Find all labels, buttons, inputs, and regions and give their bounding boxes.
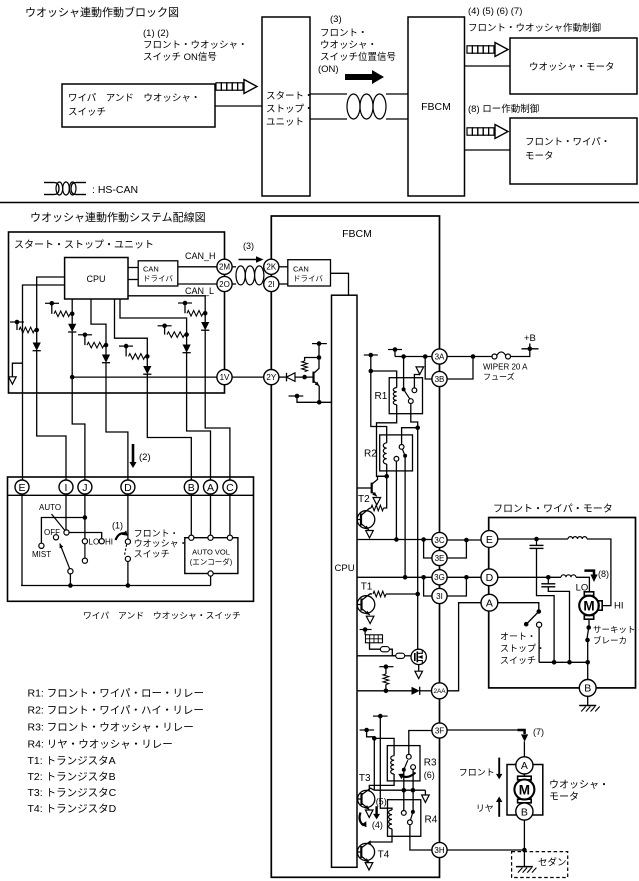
relay R2 top contact (399, 445, 404, 450)
power stub (2Y emitter) (289, 395, 304, 397)
transistor T2 circle (357, 511, 375, 529)
node 3C (432, 532, 447, 547)
transistor T2 first stage base wire (357, 487, 372, 489)
resistor N5 (167, 332, 185, 338)
relay R1 armature (404, 389, 410, 399)
relay R4 armature (411, 812, 413, 820)
wire CPU right to N6 junction (128, 296, 205, 322)
svg-text:(3): (3) (243, 241, 254, 251)
wire N1 stub to resistor (16, 322, 18, 330)
relay R3 armature (404, 760, 408, 770)
washer switch dashed lever (124, 545, 126, 556)
relay R3 second contact (411, 765, 416, 770)
svg-text:フロント: フロント (459, 768, 495, 778)
resistor N4 (129, 354, 146, 360)
node 2AA (432, 683, 448, 699)
power stub (oscillator) (360, 629, 372, 631)
armature choke coil (E line) (568, 537, 587, 539)
transistor (2Y stage) bar (312, 372, 314, 383)
wire arrow to washer pin A (523, 742, 525, 758)
svg-text:ユニット: ユニット (266, 117, 304, 128)
diode N2 (68, 324, 76, 332)
transistor T1 base wire (357, 604, 362, 606)
node B (washer motor) (516, 803, 533, 820)
wire 3E inside loop (424, 540, 432, 559)
wire AUTO VOL to bottom rail (210, 576, 212, 585)
AUTO VOL encoder box (185, 538, 238, 574)
wire CPU left to N1 vertical (37, 277, 65, 343)
wire 3H to ground node (447, 849, 524, 851)
svg-text:T1: トランジスタA: T1: トランジスタA (28, 755, 116, 767)
svg-text:フロント・ウオッシャ作動制御: フロント・ウオッシャ作動制御 (468, 22, 601, 34)
power stub N2 (45, 302, 59, 304)
transistor (2Y stage) emitter (314, 381, 320, 386)
contact AUTO (64, 530, 69, 535)
junction 3A rail / R1 pivot (401, 354, 406, 359)
washer motor bottom brush (518, 799, 532, 803)
svg-text:モータ: モータ (549, 791, 579, 803)
wire coil node down to R2 coil top (371, 371, 387, 443)
start-stop unit outline box (9, 232, 225, 393)
+B supply symbol (522, 348, 539, 350)
node 3G (432, 570, 447, 585)
wire N4 diode down to unit box bottom (146, 374, 148, 393)
diode N3 (102, 355, 110, 363)
AUTO VOL bottom contact (208, 571, 213, 576)
hatched arrow FBCM to front wiper motor (467, 128, 472, 135)
washer motor top brush (518, 776, 532, 780)
svg-text:ドライバ: ドライバ (143, 274, 173, 283)
open arrow (signal direction) on E line (9, 377, 17, 384)
svg-text:B: B (521, 806, 528, 818)
AUTO VOL contact C (227, 535, 232, 540)
wiper motor bottom brush (584, 615, 593, 619)
wire CPU to CAN driver (L) (128, 279, 138, 281)
LO choke coil (D line) (561, 575, 576, 578)
CPU column box (FBCM) (332, 295, 358, 867)
svg-text:M: M (583, 598, 594, 613)
wire C line (jog) to switch pin C (205, 393, 230, 481)
svg-text:2Y: 2Y (266, 373, 276, 382)
wire T1 resistor to V3 junction (386, 593, 418, 595)
svg-text:C: C (226, 482, 234, 494)
wire N2 diode down to unit box bottom (71, 332, 73, 393)
junction N4 (145, 354, 150, 359)
wire 3A-3B tie loop (447, 357, 473, 380)
wire N5 diode down to unit box bottom (186, 353, 188, 393)
node A (wiper motor) (481, 594, 498, 611)
front wiper motor outline box (489, 518, 636, 688)
wiper switch lever with arrow (60, 544, 70, 569)
junction capacitor2 rail (567, 660, 572, 665)
junction N5 (184, 332, 189, 337)
wire 3F to washer motor (447, 729, 519, 731)
wire 2K to CAN driver (279, 266, 288, 268)
diode N4 (143, 366, 151, 374)
arrow (3) wiring (239, 259, 260, 261)
legend: HS-CAN twisted pair symbol (44, 182, 54, 184)
wire CPU to gate node (357, 655, 396, 657)
node 1V (217, 370, 232, 385)
svg-text:B: B (584, 683, 591, 695)
AUTO VOL contact A (208, 535, 213, 540)
node 3I (432, 588, 447, 603)
arrow front (down) (498, 758, 500, 775)
transistor T2 base wire (357, 519, 361, 521)
svg-text:2AA: 2AA (433, 688, 446, 695)
svg-text:リヤ: リヤ (476, 804, 494, 814)
wire washer B to ground node (523, 820, 525, 867)
junction N3 (104, 343, 109, 348)
curved arrow (1) push direction (116, 533, 127, 540)
curved arrow (T3 area) (360, 813, 364, 826)
svg-text:LO: LO (89, 538, 100, 547)
svg-text:R1: R1 (375, 391, 388, 402)
MOSFET circle (411, 649, 426, 664)
wire resistor to R2 coil node (384, 476, 387, 508)
power stub R1 coil feed (364, 354, 378, 356)
junction lever-rail (68, 583, 73, 588)
transistor T4 collector (361, 842, 370, 848)
svg-text:T3: T3 (359, 773, 371, 784)
svg-text:I: I (65, 482, 68, 494)
2AA line wire (357, 690, 412, 692)
relay R2 box (380, 435, 413, 471)
node B (wiper motor) (579, 680, 596, 697)
node I (switch) (59, 480, 73, 494)
junction V3 / T1 collector (415, 592, 420, 597)
svg-text:セダン: セダン (538, 857, 567, 869)
svg-text:CPU: CPU (335, 563, 355, 574)
power stub (R3 coil feed) (360, 729, 375, 731)
power stub (2AA pull-up) (379, 666, 393, 668)
node 2M (217, 259, 232, 274)
wire A line (jog) to switch pin A (187, 393, 211, 481)
wiper motor M circle (579, 596, 599, 616)
diode N6 (201, 322, 209, 330)
svg-text:2I: 2I (268, 280, 275, 289)
wire J line (jog) to switch pin J (72, 393, 85, 481)
arrow (2) into D line (132, 444, 135, 463)
ground arrow (MOSFET) (415, 671, 423, 678)
capacitor (D line) (547, 577, 549, 584)
washer motor outline box (507, 765, 543, 816)
1V rail wire (72, 376, 217, 378)
junction washer-rail (126, 583, 131, 588)
svg-text:(エンコーダ): (エンコーダ) (190, 557, 233, 567)
svg-text:E: E (18, 482, 25, 494)
wire R2 top contact to V3 (402, 428, 418, 445)
svg-text:ウオッシャ・モータ: ウオッシャ・モータ (529, 62, 615, 73)
auto-stop switch lever end (524, 622, 529, 627)
power stub (2Y stage) (312, 343, 327, 345)
wire V3 to MOSFET drain (417, 594, 419, 649)
svg-text:R2: R2 (364, 449, 377, 460)
junction emitter node (317, 400, 322, 405)
resistor N6 (187, 311, 203, 317)
svg-text:3B: 3B (435, 375, 445, 384)
auto-stop switch lever (528, 612, 539, 624)
diode N5 (183, 345, 191, 353)
svg-text:R4: R4 (425, 815, 438, 826)
svg-text:ブレーカ: ブレーカ (593, 636, 627, 646)
relay R3 box (387, 746, 420, 781)
block: FBCM box (408, 17, 465, 196)
transistor T1 circle (357, 596, 375, 614)
resistor (T1 collector) (373, 591, 386, 597)
svg-text:ワイパ アンド ウオッシャ・スイッチ: ワイパ アンド ウオッシャ・スイッチ (83, 611, 241, 621)
wire 3E tie loop (447, 540, 466, 558)
svg-text:フロント・ワイパ・: フロント・ワイパ・ (525, 137, 610, 148)
junction V1/3C rail (394, 537, 399, 542)
diode (2AA line) (412, 687, 420, 695)
resistor N3 (87, 342, 104, 348)
relay R3 pivot (402, 768, 406, 772)
relay R4 moving contact (408, 820, 413, 825)
transistor T2 first stage collector (372, 476, 387, 484)
junction E/capacitor (534, 537, 539, 542)
separator line (0, 202, 639, 204)
svg-text:3A: 3A (435, 352, 445, 361)
svg-text:スイッチ: スイッチ (68, 107, 106, 118)
power stub N5 (158, 325, 172, 327)
wire 3A rail to 3B (425, 357, 432, 380)
wire N1 diode down to unit box bottom (36, 351, 38, 393)
svg-text:スタート・: スタート・ (266, 91, 314, 102)
node 3H (432, 842, 447, 857)
transistor T4 base wire (357, 851, 361, 853)
svg-text:(7): (7) (533, 727, 544, 737)
wire stub down to R4 coil (380, 716, 392, 810)
buffer oval 2 (396, 653, 405, 658)
wire auto-stop contact to rail (538, 627, 540, 662)
svg-text:モータ: モータ (525, 151, 554, 162)
wire R2 pivot down to 3G rail (V2) (404, 456, 406, 578)
svg-text:スイッチ位置信号: スイッチ位置信号 (320, 51, 396, 63)
svg-text:3H: 3H (434, 846, 444, 855)
wire J branch to MIST contact (41, 518, 85, 544)
connector band line (8, 494, 254, 496)
wire breaker to rail and B pin (587, 640, 589, 688)
wire R3 pivot down to R4 contact (403, 770, 405, 811)
wire 3G to wiper motor pin D (447, 576, 481, 578)
transistor T4 emitter (361, 856, 369, 862)
resistor (2Y pull-up) (302, 361, 308, 372)
wire CAN driver to 2O (178, 283, 217, 285)
svg-text:オート・: オート・ (500, 632, 536, 642)
diode (2Y input, cathode left) (286, 373, 288, 382)
svg-text:R3: R3 (424, 758, 437, 769)
transistor T1 collector (362, 594, 373, 601)
svg-text:MIST: MIST (32, 550, 51, 559)
wire 3A junction down to R1 pivot (403, 357, 405, 390)
transistor T2 first stage emitter (372, 492, 377, 497)
svg-text:スイッチ: スイッチ (134, 549, 170, 559)
relay R4 pivot (411, 810, 415, 814)
svg-text:ウオッシャ・: ウオッシャ・ (549, 779, 609, 791)
wire buffer1 to buffer2 (389, 649, 395, 656)
junction 3A/3B tie (471, 354, 476, 359)
node 3E (432, 550, 447, 565)
svg-text:フロント・: フロント・ (134, 529, 179, 539)
svg-text:2M: 2M (219, 263, 230, 272)
wire E to armature coil (497, 538, 568, 540)
fuse WIPER 20A (492, 354, 497, 359)
svg-text:(2): (2) (139, 452, 151, 463)
svg-text:T1: T1 (361, 582, 373, 593)
wire R1 coil bottom to T2 collector node (377, 405, 397, 477)
ground arrow (R1) (416, 367, 424, 374)
chassis ground (wiper motor) (579, 705, 596, 707)
wire oscillator to buffer 1 (370, 643, 381, 649)
3A rail wire (395, 356, 432, 358)
T3 collector horizontal wire (374, 789, 425, 791)
wiper motor top brush (584, 592, 593, 596)
junction N2 (70, 312, 75, 317)
wire coil to HI contact (587, 539, 611, 606)
wire stub to emitter line (297, 396, 319, 402)
transistor (2Y stage) collector (314, 358, 320, 374)
power stub N1 (10, 321, 24, 323)
junction D/capacitor (546, 575, 551, 580)
wire stub to 3A rail (394, 350, 396, 357)
svg-text:ウオッシャ連動作動システム配線図: ウオッシャ連動作動システム配線図 (30, 210, 206, 224)
svg-text:D: D (486, 572, 494, 584)
svg-text:2O: 2O (219, 280, 230, 289)
transistor T3 circle (358, 790, 375, 807)
svg-text:CAN: CAN (143, 265, 159, 274)
svg-text:CAN_H: CAN_H (185, 251, 216, 261)
wire 3C to wiper motor pin E (447, 539, 481, 541)
svg-text:: HS-CAN: : HS-CAN (92, 184, 138, 196)
junction breaker rail (585, 660, 590, 665)
svg-text:フロント・ウオッシャ・: フロント・ウオッシャ・ (143, 40, 248, 51)
circuit breaker top contact (586, 625, 591, 630)
svg-text:E: E (486, 534, 493, 546)
wire N4 stub to resistor (125, 346, 127, 356)
node 3F (432, 723, 447, 738)
buffer oval 1 (380, 647, 389, 652)
ground arrow (T2) (366, 531, 374, 538)
wire capacitor to bottom rail (537, 548, 555, 662)
node 2O (217, 276, 232, 291)
transistor T1 emitter (362, 609, 370, 615)
power stub (R4 coil feed) (373, 715, 388, 717)
node 3B (432, 371, 447, 386)
junction R2 coil / T2 collector (384, 474, 389, 479)
wire diode to base node (295, 376, 314, 378)
sedan dashed box (512, 852, 568, 878)
capacitor (E line) (536, 539, 538, 545)
svg-text:ドライバ: ドライバ (293, 274, 323, 283)
svg-text:FBCM: FBCM (342, 228, 372, 240)
hatched signal arrow from wiper switch to start-stop unit (216, 83, 221, 90)
wire 2Y to diode (279, 376, 287, 378)
node E (switch) (15, 480, 29, 494)
relay R2 coil (383, 443, 386, 464)
svg-text:A: A (521, 760, 528, 772)
chassis ground (sedan) (516, 866, 533, 868)
svg-text:ワイパ アンド ウオッシャ・: ワイパ アンド ウオッシャ・ (68, 93, 200, 104)
wire to R3 coil top (374, 738, 394, 755)
wire N6 stub to resistor (184, 303, 186, 313)
contact MIST (39, 543, 44, 548)
wire R2 contact down to 3C rail (V1) (395, 461, 397, 539)
svg-text:CPU: CPU (86, 274, 105, 284)
transistor T2 emitter (361, 524, 369, 530)
junction 3C/3E tie (464, 538, 469, 543)
resistor N2 (54, 311, 70, 317)
wire A to auto-stop switch (497, 603, 539, 610)
svg-text:(4): (4) (372, 820, 383, 830)
relay R2 pivot (403, 454, 407, 458)
resistor (2AA pull-up) (383, 674, 389, 685)
wire capacitor2 to bottom rail (548, 587, 569, 663)
wire coil node to R1 coil top (371, 371, 397, 388)
switch bottom rail (21, 585, 211, 587)
wire CPU left to E output line (23, 285, 65, 393)
svg-text:サーキット・: サーキット・ (593, 625, 639, 635)
3G rail wire (357, 576, 432, 578)
wiper motor ground rail (539, 661, 588, 663)
wire fuse to +B (511, 349, 530, 357)
power stub N4 (119, 345, 133, 347)
wire 2AA to wiper motor pin A (448, 603, 482, 691)
junction washer ground (522, 848, 527, 853)
wire 3A to fuse (447, 356, 492, 358)
svg-text:スタート・ストップ・ユニット: スタート・ストップ・ユニット (14, 239, 154, 251)
svg-text:フロント・ワイパ・モータ: フロント・ワイパ・モータ (493, 503, 613, 515)
wire: FBCM to washer motor block (465, 65, 511, 67)
svg-text:(8) ロー作動制御: (8) ロー作動制御 (468, 103, 539, 115)
relay R2 armature (402, 449, 405, 456)
wire I pin to AUTO contact (65, 494, 67, 530)
AUTO VOL contact B (189, 535, 194, 540)
wire CPU to CAN driver (H) (128, 267, 138, 269)
circuit breaker element (587, 628, 589, 640)
svg-text:R1: フロント・ワイパ・ロー・リレー: R1: フロント・ワイパ・ロー・リレー (28, 688, 205, 700)
wire E pin to bottom rail (21, 494, 23, 586)
MOSFET symbol (414, 653, 416, 661)
wire stub to T3 collector node (367, 730, 375, 738)
wire R1 fixed contact to ground arrow (414, 375, 419, 388)
node A (washer motor) (516, 757, 533, 774)
wire 1V to 2Y (232, 376, 264, 378)
resistor (T2 stage link) (371, 505, 384, 511)
wire emitter to CPU input (319, 386, 331, 402)
wire motor bottom brush to breaker (588, 619, 590, 627)
wire CPU bottom to N3 junction (91, 299, 106, 355)
hatched arrow FBCM to washer motor (467, 46, 472, 53)
svg-text:ストップ・: ストップ・ (266, 104, 314, 115)
junction collector node (317, 355, 322, 360)
wire: wiper switch box to start-stop unit (215, 105, 262, 107)
CAN driver box (FBCM) (288, 260, 331, 286)
wire buffer2 to MOSFET gate (405, 655, 412, 657)
relay R3 coil (391, 756, 394, 774)
ground arrow (T4) (365, 863, 373, 870)
svg-text:(1) (2): (1) (2) (143, 28, 169, 39)
svg-text:3G: 3G (434, 573, 445, 582)
svg-text:(ON): (ON) (318, 64, 339, 75)
solid black arrow (3) signal direction (345, 70, 384, 84)
wire R1 contact to V3 (411, 404, 418, 595)
transistor T3 base wire (357, 798, 362, 800)
signal direction hook on E line (12, 363, 22, 376)
auto-stop switch pole (537, 609, 542, 614)
wire E line to switch pin E (22, 393, 24, 481)
wire A pin to AUTO VOL (210, 494, 212, 535)
